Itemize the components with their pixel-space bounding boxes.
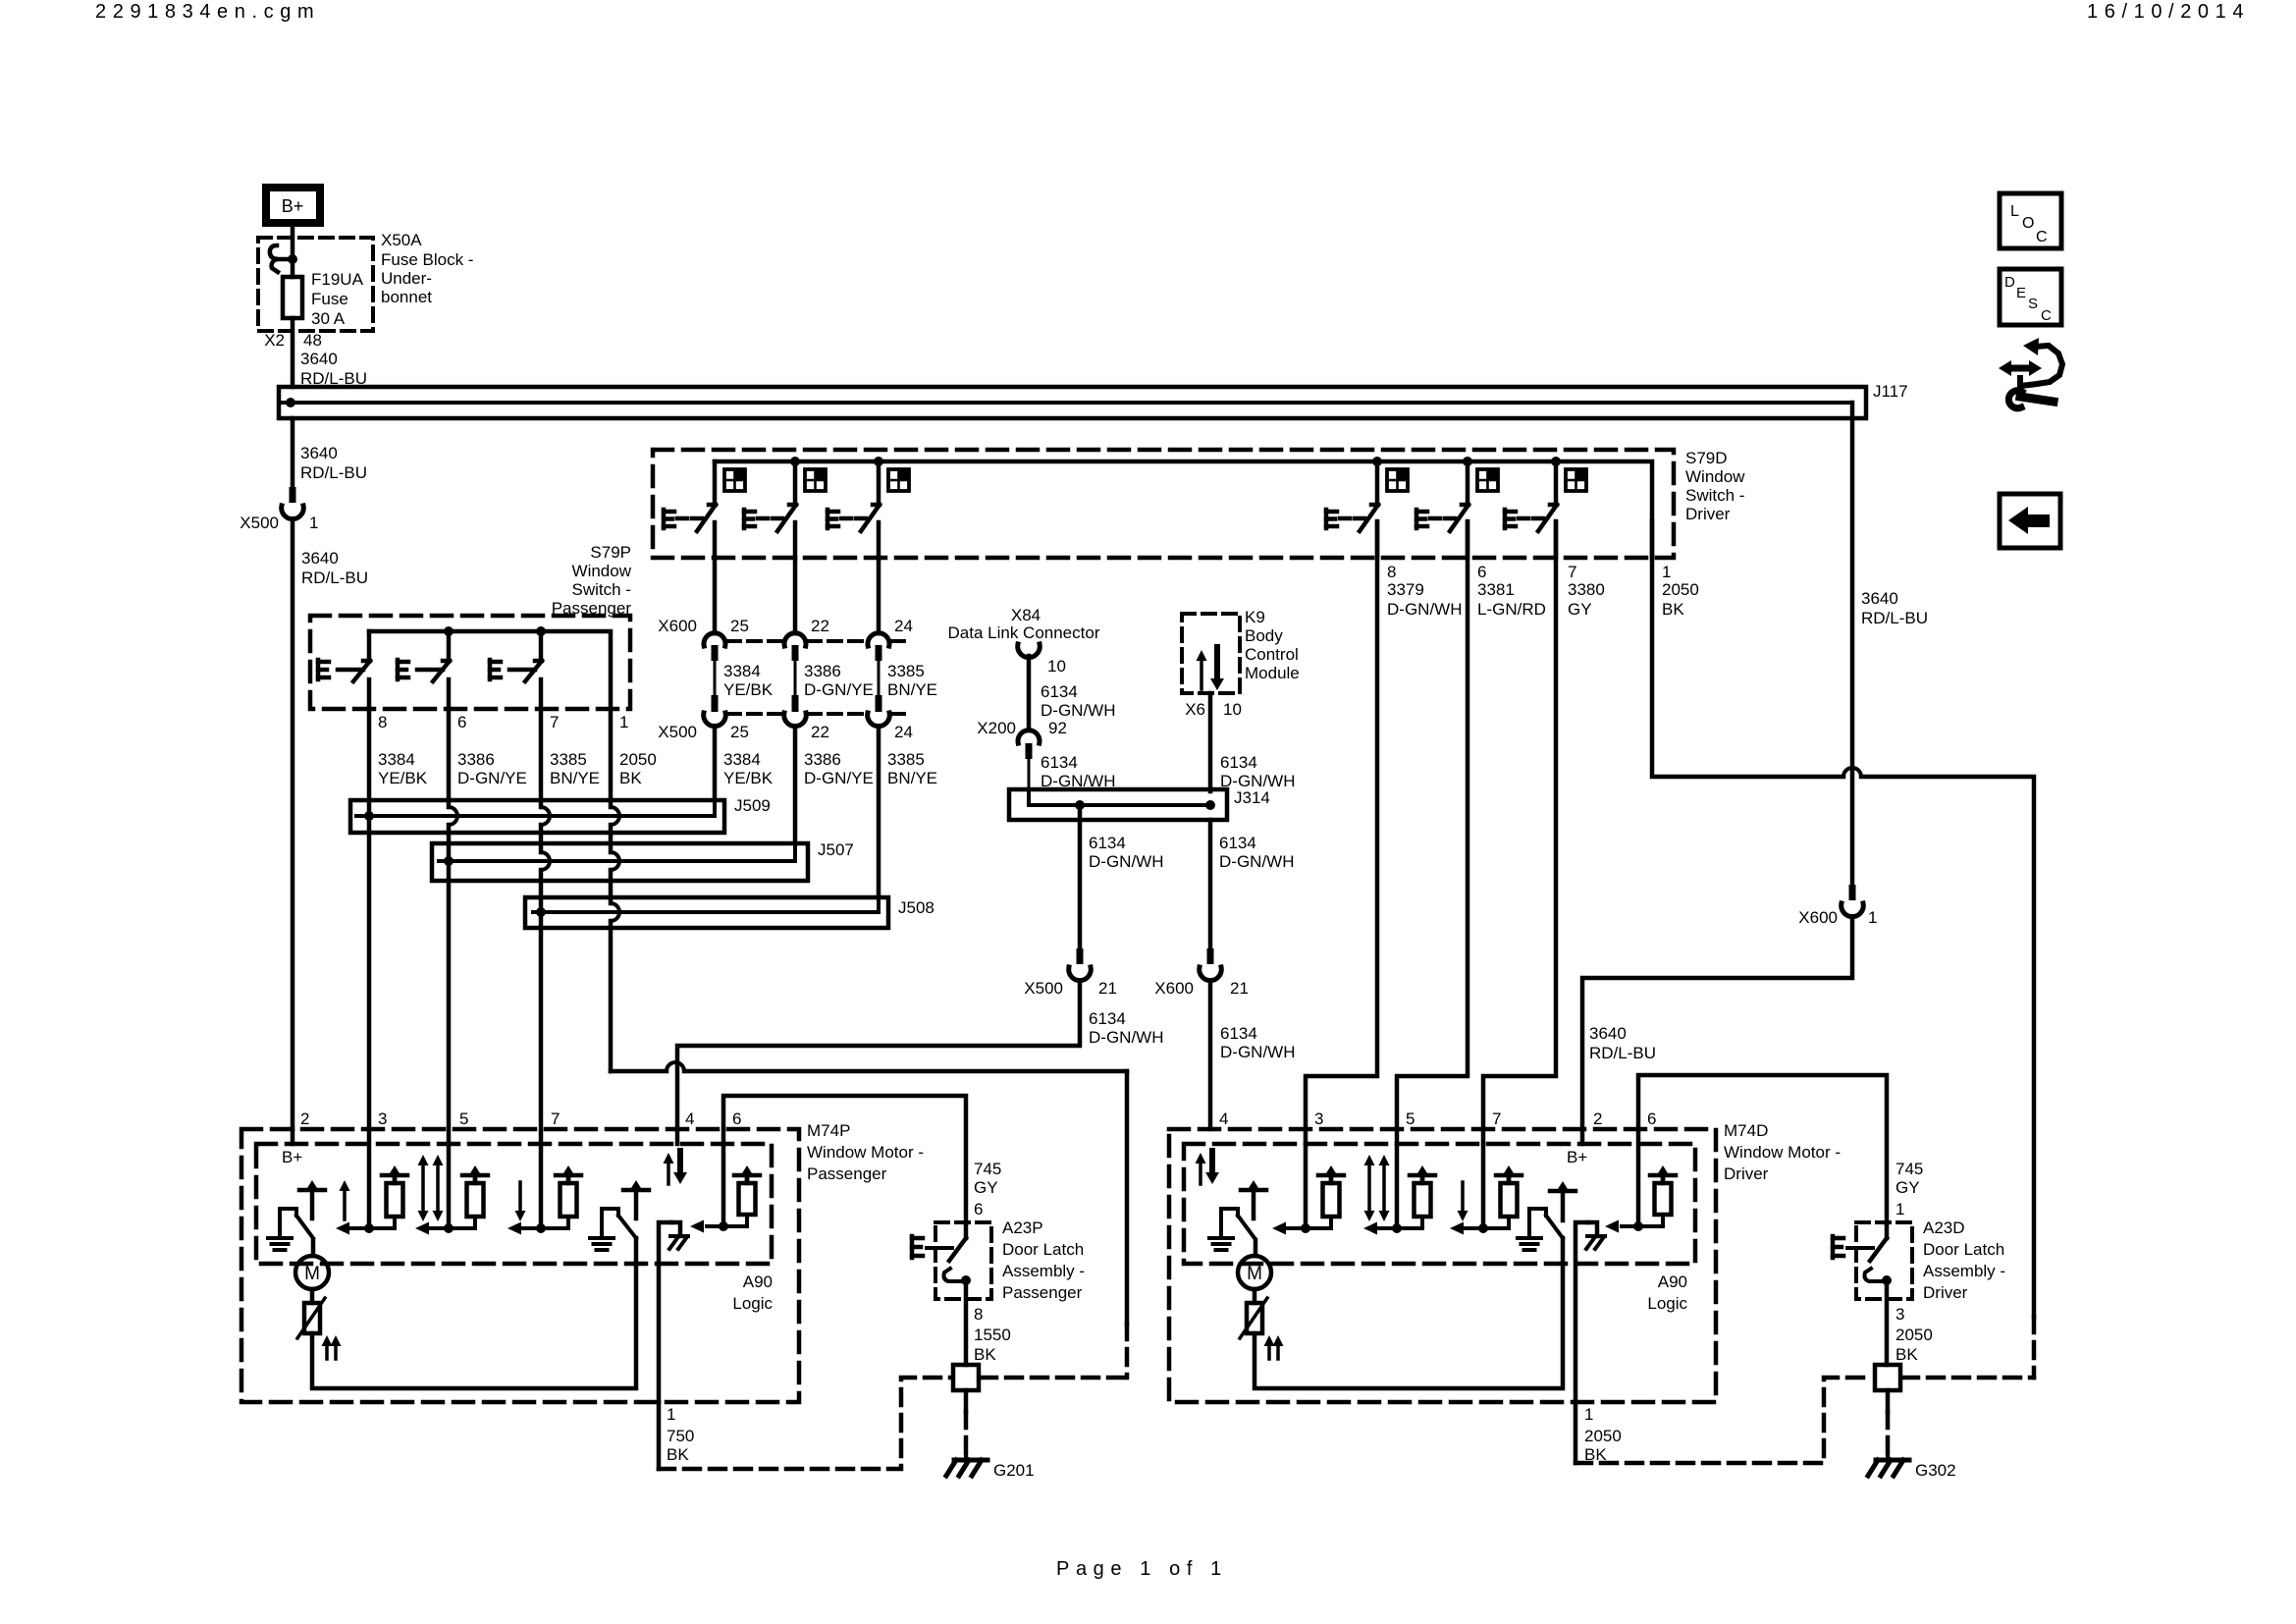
wire 3384 pin8 to J509/M74P bbox=[367, 709, 372, 1228]
B+ battery feed box bbox=[266, 188, 320, 223]
svg-text:1: 1 bbox=[309, 514, 318, 532]
svg-text:D-GN/WH: D-GN/WH bbox=[1387, 600, 1462, 619]
M74D down arrow bbox=[1458, 1182, 1468, 1221]
wire 2050 BK driver to G302 drop bbox=[1652, 521, 2034, 1317]
svg-text:D-GN/YE: D-GN/YE bbox=[804, 769, 874, 787]
svg-text:BK: BK bbox=[667, 1445, 689, 1464]
svg-text:3386: 3386 bbox=[804, 662, 841, 680]
page footer Page 1 of 1 bbox=[1056, 1558, 1228, 1580]
dashed 2050 BK to G201 web bbox=[1125, 1324, 1130, 1378]
splice J507 box bbox=[432, 843, 808, 881]
label A90 Logic (passenger) bbox=[732, 1272, 773, 1313]
splice J509 bus line bbox=[356, 800, 715, 816]
svg-text:BN/YE: BN/YE bbox=[887, 769, 937, 787]
svg-text:Window: Window bbox=[572, 562, 632, 580]
svg-text:3381: 3381 bbox=[1477, 580, 1515, 599]
label A90 Logic (driver) bbox=[1647, 1272, 1687, 1313]
M74D pin5 node+arrow+resistor bbox=[1363, 1165, 1435, 1235]
M74D double arrows bbox=[1364, 1155, 1390, 1221]
wire label 745 GY + pin 1 (A23D) bbox=[1896, 1160, 1923, 1218]
pin 7 label S79P + wire 3385 bbox=[550, 713, 600, 787]
switch S79P down bbox=[490, 631, 542, 709]
svg-text:D-GN/WH: D-GN/WH bbox=[1089, 852, 1163, 871]
svg-text:J508: J508 bbox=[898, 898, 934, 917]
wire X500-1 to window motor (3640) bbox=[291, 519, 295, 1129]
A23D dashed box bbox=[1856, 1222, 1912, 1299]
splice J314 box bbox=[1009, 789, 1227, 820]
wire label 6134 D-GN/WH (M74P) bbox=[1089, 1009, 1163, 1047]
svg-text:22: 22 bbox=[811, 617, 829, 635]
svg-text:92: 92 bbox=[1048, 719, 1067, 737]
svg-text:X2: X2 bbox=[264, 331, 285, 350]
M74P pin6 node+arrow+resistor bbox=[690, 1165, 760, 1233]
wire label 3386 D-GN/YE (low) bbox=[804, 750, 874, 787]
wire X500-21 to M74P pin 4 bbox=[677, 981, 1080, 1129]
wire J314 left drop 6134 bbox=[1080, 805, 1163, 948]
pin label 22 (X500 row) bbox=[811, 723, 829, 741]
fuse block X50A dashed box bbox=[258, 238, 373, 331]
wire 3385 BN/YE S79D to X600 bbox=[877, 558, 881, 633]
wire K9 X6-10 to J314 bbox=[1185, 693, 1242, 791]
wire label 3640 RD/L-BU (M74D B+) bbox=[1589, 1024, 1656, 1062]
wire label 3386 D-GN/YE (mid) bbox=[804, 662, 874, 699]
A23P E bracket bbox=[912, 1236, 952, 1258]
connector X200 pin 92 bbox=[977, 719, 1067, 759]
svg-text:A23P: A23P bbox=[1002, 1218, 1043, 1237]
svg-text:Control: Control bbox=[1245, 645, 1299, 664]
svg-text:Logic: Logic bbox=[1647, 1294, 1687, 1313]
dashed continuation 2050 to ground web bbox=[2032, 1317, 2037, 1378]
S79D window switch driver dashed box bbox=[653, 450, 1674, 558]
svg-text:M74D: M74D bbox=[1724, 1121, 1768, 1140]
svg-text:E: E bbox=[2016, 285, 2026, 301]
M74D outer dashed box bbox=[1169, 1129, 1716, 1402]
svg-text:750: 750 bbox=[667, 1427, 694, 1445]
svg-text:GY: GY bbox=[1568, 600, 1592, 619]
svg-text:3640: 3640 bbox=[300, 350, 338, 368]
wire X200 to J314 (6134) bbox=[1029, 753, 1115, 791]
DESC button bbox=[2000, 269, 2061, 325]
svg-text:Switch -: Switch - bbox=[1685, 486, 1744, 505]
svg-text:16/10/2014: 16/10/2014 bbox=[2087, 1, 2250, 23]
svg-text:GY: GY bbox=[1896, 1178, 1920, 1197]
svg-text:X6: X6 bbox=[1185, 700, 1205, 719]
label B+ inside M74P bbox=[282, 1148, 302, 1166]
svg-text:21: 21 bbox=[1230, 979, 1249, 998]
inline connector (square) G302 node bbox=[1875, 1365, 1900, 1390]
svg-text:YE/BK: YE/BK bbox=[723, 769, 774, 787]
junction node at fuse top bbox=[288, 254, 297, 264]
svg-text:RD/L-BU: RD/L-BU bbox=[301, 568, 368, 587]
M74P motor bottom rail bbox=[312, 1238, 636, 1388]
svg-text:Passenger: Passenger bbox=[1002, 1283, 1083, 1302]
label S79D Window Switch - Driver bbox=[1685, 449, 1745, 523]
pin label X2 / 48 bbox=[264, 331, 322, 350]
svg-text:2: 2 bbox=[1593, 1110, 1602, 1128]
svg-text:3640: 3640 bbox=[301, 549, 339, 568]
svg-text:24: 24 bbox=[894, 723, 913, 741]
switch S79D passenger bbox=[1326, 461, 1408, 558]
wire label 3640 RD/L-BU (top) bbox=[300, 350, 367, 388]
svg-text:D-GN/YE: D-GN/YE bbox=[457, 769, 527, 787]
M74D pin3 node+arrow+resistor bbox=[1272, 1165, 1344, 1235]
label M74D Window Motor - Driver bbox=[1724, 1121, 1841, 1183]
svg-text:8: 8 bbox=[378, 713, 387, 731]
svg-text:7: 7 bbox=[1568, 563, 1576, 581]
pin 1 label S79P + wire 2050 bbox=[619, 713, 657, 787]
ground G201 bbox=[946, 1455, 1035, 1480]
svg-text:1: 1 bbox=[667, 1405, 675, 1424]
G201 dashed web right bbox=[981, 1376, 1127, 1380]
M74D up/down icon bbox=[1196, 1151, 1220, 1184]
ground G302 bbox=[1868, 1455, 1956, 1480]
filename label 2291834en.cgm bbox=[95, 1, 320, 23]
K9 up/down arrows icon bbox=[1197, 647, 1225, 690]
G302 dashed web right bbox=[1902, 1376, 2034, 1380]
pin 6 label + wire 3381 bbox=[1397, 521, 1546, 1228]
svg-text:3: 3 bbox=[378, 1110, 387, 1128]
M74P outer dashed box bbox=[241, 1129, 799, 1402]
M74D up-switch to ground bbox=[1209, 1209, 1255, 1250]
svg-text:Window Motor -: Window Motor - bbox=[1724, 1143, 1841, 1162]
svg-text:Driver: Driver bbox=[1724, 1164, 1769, 1183]
M74D thermal arrows bbox=[1264, 1335, 1284, 1359]
svg-text:G302: G302 bbox=[1915, 1461, 1956, 1480]
svg-text:4: 4 bbox=[685, 1110, 694, 1128]
connector X600 pin 1 bbox=[1842, 885, 1864, 917]
inline connectors X600/X500 pin 22 on 3386 D-GN/YE bbox=[784, 633, 807, 727]
svg-text:6: 6 bbox=[974, 1200, 983, 1218]
label A23D Door Latch Assembly - Driver bbox=[1923, 1218, 2005, 1302]
wire label 3640 RD/L-BU (below J117) bbox=[300, 444, 367, 482]
wire J117 to X500 (3640) bbox=[291, 418, 295, 491]
M74P up/down icon bbox=[664, 1151, 688, 1184]
svg-text:B+: B+ bbox=[282, 1148, 302, 1166]
svg-text:48: 48 bbox=[303, 331, 322, 350]
junction node J509 bbox=[364, 811, 374, 821]
svg-text:S79D: S79D bbox=[1685, 449, 1728, 467]
wire X600-21 to M74D pin 4 bbox=[1208, 981, 1213, 1129]
M74D down-switch T contact bbox=[1550, 1181, 1575, 1220]
wire X84 pin 10 (6134) bbox=[1029, 656, 1115, 729]
switch S79P up bbox=[318, 631, 370, 709]
svg-text:3379: 3379 bbox=[1387, 580, 1424, 599]
svg-text:3640: 3640 bbox=[1589, 1024, 1627, 1043]
junction node on J117 bbox=[286, 398, 295, 407]
svg-text:2291834en.cgm: 2291834en.cgm bbox=[95, 1, 320, 23]
svg-text:2050: 2050 bbox=[1584, 1427, 1622, 1445]
svg-text:Switch -: Switch - bbox=[572, 580, 631, 599]
splice J508 box bbox=[525, 897, 888, 928]
junction nodes on S79D bus bbox=[790, 457, 1561, 466]
S79P window switch passenger dashed box bbox=[310, 616, 630, 709]
connector X500 pin 21 bbox=[1024, 948, 1117, 998]
svg-text:6: 6 bbox=[1647, 1110, 1656, 1128]
svg-text:5: 5 bbox=[1406, 1110, 1415, 1128]
pin labels M74D top bbox=[1219, 1110, 1656, 1128]
switch S79D driver-down bbox=[1416, 461, 1498, 558]
svg-text:10: 10 bbox=[1223, 700, 1242, 719]
svg-text:RD/L-BU: RD/L-BU bbox=[300, 463, 367, 482]
M74P pin3 node+arrow+resistor bbox=[336, 1165, 407, 1235]
svg-text:3385: 3385 bbox=[887, 750, 925, 769]
switch S79D rear-right bbox=[828, 461, 909, 558]
svg-text:J314: J314 bbox=[1234, 788, 1270, 807]
svg-text:D-GN/YE: D-GN/YE bbox=[804, 680, 874, 699]
wire J117 right drop 3640 RD/L-BU bbox=[1850, 403, 1855, 885]
pin 3 label M74D bbox=[1314, 1110, 1323, 1128]
svg-text:745: 745 bbox=[1896, 1160, 1923, 1178]
svg-text:Passenger: Passenger bbox=[807, 1164, 887, 1183]
svg-text:Door Latch: Door Latch bbox=[1923, 1240, 2004, 1259]
svg-text:Window: Window bbox=[1685, 467, 1745, 486]
M74P down arrow bbox=[515, 1182, 526, 1221]
date label 16/10/2014 bbox=[2087, 1, 2250, 23]
svg-text:3386: 3386 bbox=[457, 750, 495, 769]
wire label 3640 RD/L-BU (right) bbox=[1861, 589, 1928, 627]
wire label 3385 BN/YE (mid) bbox=[887, 662, 937, 699]
wire 2050 BK passenger to right bbox=[611, 1062, 1127, 1324]
svg-text:Door Latch: Door Latch bbox=[1002, 1240, 1084, 1259]
svg-text:10: 10 bbox=[1047, 657, 1066, 676]
wire label 3384 YE/BK (low) bbox=[723, 750, 774, 787]
pin 1 label M74D + wire 2050 BK bbox=[1575, 1402, 1622, 1464]
svg-text:6134: 6134 bbox=[1041, 753, 1078, 772]
svg-text:3: 3 bbox=[1896, 1305, 1904, 1324]
wire 3386 X500 to J507 bbox=[793, 727, 798, 843]
svg-text:L: L bbox=[2010, 203, 2019, 220]
svg-text:8: 8 bbox=[974, 1305, 983, 1324]
svg-text:3380: 3380 bbox=[1568, 580, 1605, 599]
M74P up-switch to ground bbox=[268, 1209, 313, 1250]
svg-text:Module: Module bbox=[1245, 664, 1300, 682]
wire J314 right drop 6134 bbox=[1210, 820, 1294, 948]
splice pack J117 outer box bbox=[279, 387, 1866, 418]
splice J507 bus line bbox=[439, 843, 795, 861]
junction nodes J314 bbox=[1075, 800, 1215, 810]
svg-text:21: 21 bbox=[1098, 979, 1117, 998]
svg-text:6134: 6134 bbox=[1041, 682, 1078, 701]
M74P down-switch to ground bbox=[590, 1209, 636, 1250]
pin 7 label M74D bbox=[1492, 1110, 1501, 1128]
inline connectors X600/X500 pin 24 on 3385 BN/YE bbox=[868, 633, 890, 727]
splice J509 box bbox=[350, 800, 724, 833]
M74P thermal arrows bbox=[322, 1335, 342, 1359]
wire 3384 YE/BK S79D to X600 bbox=[713, 558, 718, 633]
M74D A90 logic dashed box bbox=[1184, 1144, 1695, 1264]
splice pack J117 bus line bbox=[283, 401, 1852, 405]
M74P pin5 node+arrow+resistor bbox=[415, 1165, 488, 1235]
switch S79D driver-up bbox=[1505, 461, 1586, 558]
M74P down-switch T contact bbox=[623, 1180, 649, 1218]
svg-text:D-GN/WH: D-GN/WH bbox=[1089, 1028, 1163, 1047]
svg-text:S79P: S79P bbox=[590, 543, 631, 562]
wire label 745 GY + pin 6 (A23P) bbox=[974, 1160, 1001, 1218]
svg-text:6134: 6134 bbox=[1220, 753, 1257, 772]
wire label 6134 D-GN/WH (K9) bbox=[1220, 753, 1295, 790]
pin label 22 (X600 row) bbox=[811, 617, 829, 635]
svg-text:X600: X600 bbox=[658, 617, 697, 635]
svg-text:Passenger: Passenger bbox=[552, 599, 632, 618]
svg-text:GY: GY bbox=[974, 1178, 998, 1197]
splice J508 bus line bbox=[533, 897, 879, 912]
svg-text:X600: X600 bbox=[1798, 908, 1838, 927]
wire A23D pin 3 (2050 BK) bbox=[1887, 1280, 1933, 1365]
inline connectors X600/X500 pin 25 on 3384 YE/BK bbox=[704, 633, 726, 727]
svg-text:7: 7 bbox=[550, 713, 559, 731]
svg-text:25: 25 bbox=[730, 617, 749, 635]
wire 3384 X500 to J509 bbox=[713, 727, 718, 800]
svg-text:745: 745 bbox=[974, 1160, 1001, 1178]
svg-text:X84: X84 bbox=[1011, 606, 1041, 624]
svg-text:M: M bbox=[1247, 1264, 1262, 1284]
svg-text:X600: X600 bbox=[1154, 979, 1194, 998]
svg-text:BN/YE: BN/YE bbox=[550, 769, 600, 787]
svg-text:3384: 3384 bbox=[723, 662, 761, 680]
svg-text:Driver: Driver bbox=[1685, 505, 1731, 523]
svg-text:25: 25 bbox=[730, 723, 749, 741]
pin label 25 (X600 row) bbox=[730, 617, 749, 635]
M74P thermal protector bbox=[297, 1289, 325, 1338]
svg-text:D: D bbox=[2004, 274, 2015, 291]
wire below square to G302 bbox=[1886, 1390, 1891, 1455]
svg-text:Window Motor -: Window Motor - bbox=[807, 1143, 924, 1162]
svg-text:6: 6 bbox=[732, 1110, 741, 1128]
svg-text:2: 2 bbox=[300, 1110, 309, 1128]
label X500 row bbox=[658, 723, 697, 741]
M74D logic ground claw bbox=[1575, 1222, 1605, 1402]
label A23P Door Latch Assembly - Passenger bbox=[1002, 1218, 1085, 1302]
svg-text:BN/YE: BN/YE bbox=[887, 680, 937, 699]
switch S79D rear-left bbox=[744, 461, 826, 558]
svg-text:F19UA: F19UA bbox=[311, 270, 364, 289]
junction nodes on S79P bus bbox=[444, 626, 546, 636]
G201 dashed web left bbox=[659, 1378, 951, 1469]
svg-text:5: 5 bbox=[459, 1110, 468, 1128]
S79P common bus wire bbox=[369, 631, 611, 709]
wire 3386 D-GN/YE S79D to X600 bbox=[793, 558, 798, 633]
M74P pin4 stub bbox=[675, 1129, 680, 1144]
svg-text:6134: 6134 bbox=[1089, 834, 1126, 852]
svg-text:6: 6 bbox=[1477, 563, 1486, 581]
pin labels M74P top bbox=[300, 1110, 741, 1128]
M74D pin7 node+arrow+resistor bbox=[1450, 1165, 1522, 1235]
svg-text:2050: 2050 bbox=[619, 750, 657, 769]
X84 data link connector bbox=[948, 606, 1100, 658]
svg-text:2050: 2050 bbox=[1662, 580, 1699, 599]
wire M74P pin6 to A23P (745 GY) bbox=[723, 1096, 966, 1226]
pin 5 label M74D bbox=[1406, 1110, 1415, 1128]
wire fuse to J117 bbox=[291, 318, 295, 387]
svg-text:3384: 3384 bbox=[378, 750, 415, 769]
svg-text:C: C bbox=[2041, 307, 2052, 324]
svg-text:30 A: 30 A bbox=[311, 309, 346, 328]
svg-text:X500: X500 bbox=[658, 723, 697, 741]
label F19UA Fuse 30 A bbox=[311, 270, 364, 328]
label J117 bbox=[1873, 382, 1908, 401]
wire 3385 X500 to J508 bbox=[877, 727, 881, 897]
svg-text:A90: A90 bbox=[1658, 1272, 1687, 1291]
svg-text:3384: 3384 bbox=[723, 750, 761, 769]
svg-text:6134: 6134 bbox=[1220, 1024, 1257, 1043]
svg-text:Body: Body bbox=[1245, 626, 1283, 645]
pin 8 label S79P + wire 3384 bbox=[378, 713, 428, 787]
svg-text:C: C bbox=[2036, 229, 2048, 245]
pin label 24 (X500 row) bbox=[894, 723, 913, 741]
svg-text:22: 22 bbox=[811, 723, 829, 741]
svg-text:M74P: M74P bbox=[807, 1121, 850, 1140]
svg-text:X500: X500 bbox=[240, 514, 279, 532]
svg-text:3640: 3640 bbox=[1861, 589, 1898, 608]
wire 3385 pin7 through buses bbox=[541, 709, 550, 1228]
X600 row dashed link bbox=[727, 639, 905, 643]
M74D pin2 stub bbox=[1580, 1129, 1585, 1144]
svg-text:X200: X200 bbox=[977, 719, 1016, 737]
splice J314 bus line bbox=[1029, 791, 1211, 805]
svg-text:2050: 2050 bbox=[1896, 1326, 1933, 1344]
wire label 3384 YE/BK (mid) bbox=[723, 662, 774, 699]
M74P motor blade wire bbox=[311, 1240, 316, 1256]
svg-text:RD/L-BU: RD/L-BU bbox=[1861, 609, 1928, 627]
svg-text:D-GN/WH: D-GN/WH bbox=[1219, 852, 1294, 871]
svg-text:3640: 3640 bbox=[300, 444, 338, 462]
svg-text:Logic: Logic bbox=[732, 1294, 773, 1313]
label J507 bbox=[818, 840, 854, 859]
wire M74D pin6 to A23D (745 GY) bbox=[1638, 1075, 1887, 1226]
svg-text:D-GN/WH: D-GN/WH bbox=[1220, 1043, 1295, 1061]
wire A23P pin 8 (1550 BK) bbox=[966, 1280, 1011, 1365]
svg-text:24: 24 bbox=[894, 617, 913, 635]
A23D E bracket bbox=[1833, 1236, 1873, 1258]
svg-text:O: O bbox=[2022, 215, 2034, 232]
svg-text:M: M bbox=[304, 1264, 320, 1284]
M74D thermal protector bbox=[1240, 1289, 1267, 1338]
motor M74D bbox=[1238, 1256, 1271, 1289]
svg-text:Driver: Driver bbox=[1923, 1283, 1968, 1302]
wire 2050 BK passenger down bbox=[611, 709, 619, 1071]
M74P logic ground claw bbox=[659, 1222, 688, 1402]
svg-text:J509: J509 bbox=[734, 796, 771, 815]
label J509 bbox=[734, 796, 771, 815]
fuse F19UA 30A bbox=[283, 277, 302, 318]
pin 1 label M74P + wire 750 BK bbox=[659, 1402, 694, 1469]
label X600 / 1 bbox=[1798, 908, 1877, 927]
M74D motor bottom rail bbox=[1255, 1238, 1563, 1388]
svg-text:3386: 3386 bbox=[804, 750, 841, 769]
LOC button bbox=[2000, 193, 2061, 248]
A23D latch switch bbox=[1870, 1222, 1887, 1261]
svg-text:BK: BK bbox=[1662, 600, 1684, 619]
M74P pin2 stub bbox=[291, 1129, 295, 1144]
svg-text:bonnet: bonnet bbox=[381, 288, 432, 306]
svg-text:YE/BK: YE/BK bbox=[723, 680, 774, 699]
motor M74P bbox=[295, 1256, 329, 1289]
wire fuse top bbox=[291, 259, 295, 277]
svg-text:Assembly -: Assembly - bbox=[1002, 1262, 1085, 1280]
svg-text:Under-: Under- bbox=[381, 269, 432, 288]
svg-text:A90: A90 bbox=[743, 1272, 773, 1291]
svg-text:X50A: X50A bbox=[381, 231, 422, 249]
svg-text:6: 6 bbox=[457, 713, 466, 731]
M74P A90 logic dashed box bbox=[256, 1144, 772, 1264]
svg-text:1: 1 bbox=[619, 713, 628, 731]
M74D down-switch to ground bbox=[1518, 1209, 1563, 1250]
svg-text:BK: BK bbox=[619, 769, 642, 787]
inline connector (square) G201 node bbox=[953, 1365, 979, 1390]
svg-text:Fuse Block -: Fuse Block - bbox=[381, 250, 473, 269]
M74P claw corner bbox=[671, 1222, 680, 1236]
junction node J508 bbox=[536, 907, 546, 917]
